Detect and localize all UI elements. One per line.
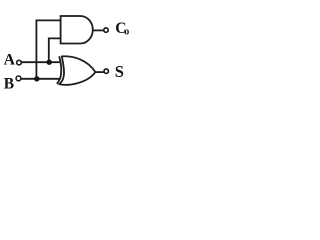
XOR gate U2 body (back arc 2, bottom curve, top curve) bbox=[60, 56, 96, 84]
wire A branch up to AND lower input bbox=[49, 38, 61, 62]
svg-text:B: B bbox=[4, 75, 14, 92]
XOR gate U2 back arc 1 bbox=[57, 56, 61, 84]
svg-text:S: S bbox=[115, 62, 124, 81]
svg-text:o: o bbox=[124, 27, 129, 38]
op AND gate U1 body bbox=[61, 16, 93, 44]
wire XOR output bbox=[95, 71, 104, 73]
junction dot on B wire bbox=[34, 76, 39, 81]
wire AND output bbox=[92, 29, 104, 31]
svg-text:A: A bbox=[4, 52, 16, 69]
wire input A horizontal bbox=[22, 61, 60, 63]
wire input B horizontal bbox=[21, 78, 60, 80]
terminal circle AND output Co bbox=[104, 28, 108, 32]
terminal circle input B bbox=[16, 76, 21, 81]
terminal circle XOR output S bbox=[104, 69, 108, 73]
junction dot on A wire bbox=[47, 60, 52, 65]
wire B branch up to AND upper input bbox=[36, 20, 61, 79]
terminal circle input A bbox=[17, 60, 22, 65]
